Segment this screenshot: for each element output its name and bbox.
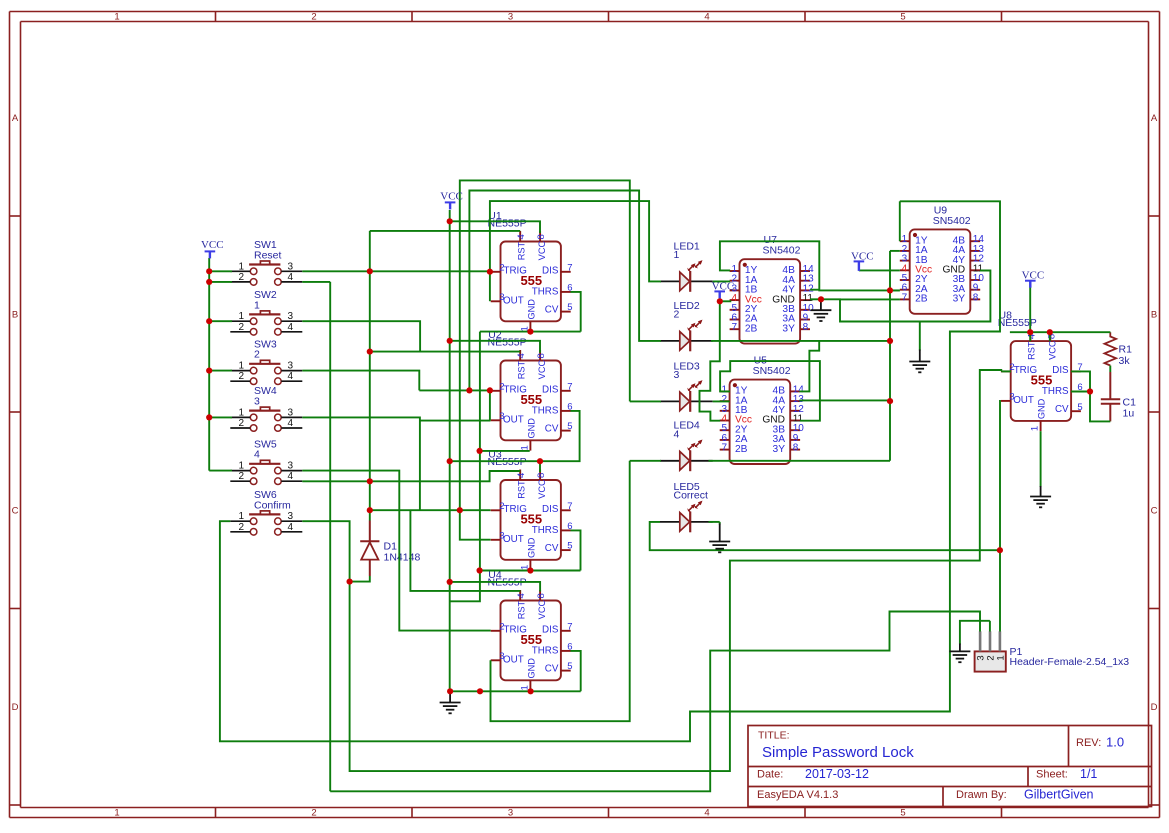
svg-text:Correct: Correct bbox=[674, 489, 709, 501]
svg-text:3: 3 bbox=[288, 511, 294, 522]
svg-text:VCC: VCC bbox=[537, 241, 547, 261]
svg-text:R1: R1 bbox=[1119, 344, 1133, 356]
svg-text:7: 7 bbox=[722, 443, 728, 454]
svg-text:1: 1 bbox=[520, 445, 531, 450]
svg-text:1: 1 bbox=[114, 808, 119, 819]
svg-text:2: 2 bbox=[499, 262, 504, 273]
svg-text:3Y: 3Y bbox=[782, 323, 795, 334]
svg-text:GND: GND bbox=[527, 418, 537, 439]
svg-text:5: 5 bbox=[567, 302, 572, 313]
svg-text:GND: GND bbox=[1037, 398, 1047, 419]
svg-text:2: 2 bbox=[238, 522, 244, 533]
svg-text:A: A bbox=[1151, 113, 1158, 124]
svg-text:1: 1 bbox=[114, 12, 119, 23]
svg-text:GilbertGiven: GilbertGiven bbox=[1024, 788, 1094, 802]
svg-text:5: 5 bbox=[567, 541, 572, 552]
svg-text:3k: 3k bbox=[1119, 355, 1131, 367]
svg-text:RST: RST bbox=[516, 361, 526, 380]
svg-text:7: 7 bbox=[567, 501, 572, 512]
svg-text:DIS: DIS bbox=[1052, 365, 1069, 376]
svg-text:D: D bbox=[12, 702, 19, 713]
svg-text:Sheet:: Sheet: bbox=[1036, 769, 1068, 781]
svg-text:GND: GND bbox=[527, 299, 537, 320]
svg-text:7: 7 bbox=[567, 381, 572, 392]
svg-text:THRS: THRS bbox=[1042, 386, 1069, 397]
svg-text:CV: CV bbox=[1055, 404, 1069, 415]
svg-text:4: 4 bbox=[516, 234, 527, 239]
svg-text:3: 3 bbox=[499, 651, 504, 662]
svg-text:2017-03-12: 2017-03-12 bbox=[805, 767, 869, 781]
svg-text:3: 3 bbox=[288, 361, 294, 372]
svg-text:2: 2 bbox=[499, 381, 504, 392]
svg-text:SN5402: SN5402 bbox=[753, 365, 791, 377]
svg-text:4: 4 bbox=[288, 272, 294, 283]
svg-text:3: 3 bbox=[288, 261, 294, 272]
svg-text:OUT: OUT bbox=[503, 654, 524, 665]
svg-text:8: 8 bbox=[793, 443, 799, 454]
svg-text:4: 4 bbox=[288, 371, 294, 382]
svg-text:Drawn By:: Drawn By: bbox=[956, 789, 1007, 801]
svg-text:8: 8 bbox=[536, 593, 547, 598]
svg-text:3: 3 bbox=[508, 808, 513, 819]
svg-text:3: 3 bbox=[674, 369, 680, 381]
svg-text:DIS: DIS bbox=[542, 504, 559, 515]
svg-text:SN5402: SN5402 bbox=[763, 245, 801, 257]
svg-text:2: 2 bbox=[674, 308, 680, 320]
svg-text:TRIG: TRIG bbox=[504, 625, 527, 636]
svg-text:2: 2 bbox=[254, 349, 260, 361]
svg-text:A: A bbox=[12, 113, 19, 124]
svg-text:OUT: OUT bbox=[1013, 395, 1034, 406]
svg-text:VCC: VCC bbox=[537, 600, 547, 620]
svg-text:4: 4 bbox=[516, 353, 527, 358]
svg-text:3Y: 3Y bbox=[953, 294, 966, 305]
svg-text:CV: CV bbox=[545, 304, 559, 315]
svg-text:SN5402: SN5402 bbox=[933, 215, 971, 227]
svg-text:OUT: OUT bbox=[503, 295, 524, 306]
svg-text:TRIG: TRIG bbox=[504, 266, 527, 277]
svg-text:3: 3 bbox=[254, 396, 260, 408]
svg-text:7: 7 bbox=[731, 322, 737, 333]
svg-text:1/1: 1/1 bbox=[1080, 767, 1097, 781]
svg-text:RST: RST bbox=[516, 480, 526, 499]
svg-text:OUT: OUT bbox=[503, 534, 524, 545]
svg-text:RST: RST bbox=[1027, 341, 1037, 360]
svg-text:VCC: VCC bbox=[537, 360, 547, 380]
svg-text:7: 7 bbox=[567, 621, 572, 632]
svg-text:5: 5 bbox=[900, 12, 905, 23]
svg-text:Simple Password Lock: Simple Password Lock bbox=[762, 744, 914, 761]
svg-text:2: 2 bbox=[499, 501, 504, 512]
svg-text:8: 8 bbox=[973, 292, 979, 303]
svg-text:4: 4 bbox=[288, 471, 294, 482]
svg-text:DIS: DIS bbox=[542, 385, 559, 396]
svg-text:3: 3 bbox=[499, 411, 504, 422]
svg-text:1: 1 bbox=[1030, 426, 1041, 431]
svg-text:4: 4 bbox=[288, 418, 294, 429]
svg-text:REV:: REV: bbox=[1076, 737, 1101, 749]
svg-text:B: B bbox=[12, 310, 18, 321]
svg-text:4: 4 bbox=[516, 473, 527, 478]
svg-text:1: 1 bbox=[238, 407, 244, 418]
svg-text:8: 8 bbox=[536, 473, 547, 478]
svg-text:DIS: DIS bbox=[542, 625, 559, 636]
svg-text:3: 3 bbox=[499, 292, 504, 303]
svg-text:4: 4 bbox=[674, 428, 680, 440]
svg-text:2: 2 bbox=[238, 272, 244, 283]
svg-text:CV: CV bbox=[545, 423, 559, 434]
svg-text:GND: GND bbox=[527, 537, 537, 558]
svg-text:3: 3 bbox=[1009, 392, 1014, 403]
svg-text:1: 1 bbox=[238, 461, 244, 472]
svg-text:4: 4 bbox=[516, 593, 527, 598]
svg-text:NE555P: NE555P bbox=[488, 218, 527, 230]
svg-text:4: 4 bbox=[254, 449, 260, 461]
svg-text:THRS: THRS bbox=[532, 525, 559, 536]
svg-text:1: 1 bbox=[674, 249, 680, 261]
svg-text:TRIG: TRIG bbox=[504, 504, 527, 515]
svg-text:2: 2 bbox=[238, 322, 244, 333]
svg-text:1: 1 bbox=[238, 261, 244, 272]
svg-text:5: 5 bbox=[1077, 402, 1082, 413]
svg-text:4: 4 bbox=[288, 322, 294, 333]
svg-text:2B: 2B bbox=[735, 444, 748, 455]
svg-text:THRS: THRS bbox=[532, 645, 559, 656]
svg-text:1: 1 bbox=[238, 511, 244, 522]
svg-text:3: 3 bbox=[508, 12, 513, 23]
svg-text:4: 4 bbox=[704, 808, 709, 819]
svg-text:2: 2 bbox=[238, 371, 244, 382]
svg-text:RST: RST bbox=[516, 242, 526, 261]
svg-text:D: D bbox=[1151, 702, 1158, 713]
svg-text:2B: 2B bbox=[915, 294, 928, 305]
svg-text:1N4148: 1N4148 bbox=[384, 552, 421, 564]
svg-text:Header-Female-2.54_1x3: Header-Female-2.54_1x3 bbox=[1010, 656, 1130, 668]
svg-text:VCC: VCC bbox=[537, 479, 547, 499]
svg-text:DIS: DIS bbox=[542, 266, 559, 277]
svg-text:8: 8 bbox=[803, 322, 809, 333]
svg-text:5: 5 bbox=[900, 808, 905, 819]
svg-text:7: 7 bbox=[567, 262, 572, 273]
svg-text:THRS: THRS bbox=[532, 405, 559, 416]
svg-text:Confirm: Confirm bbox=[254, 499, 291, 511]
svg-text:CV: CV bbox=[545, 663, 559, 674]
svg-text:3: 3 bbox=[499, 530, 504, 541]
svg-text:GND: GND bbox=[527, 658, 537, 679]
svg-text:3: 3 bbox=[288, 311, 294, 322]
svg-text:THRS: THRS bbox=[532, 286, 559, 297]
svg-text:VCC: VCC bbox=[440, 191, 463, 203]
svg-text:2: 2 bbox=[499, 621, 504, 632]
svg-text:7: 7 bbox=[902, 292, 908, 303]
svg-text:Date:: Date: bbox=[757, 769, 783, 781]
svg-text:2: 2 bbox=[238, 418, 244, 429]
svg-text:2: 2 bbox=[311, 12, 316, 23]
svg-text:EasyEDA V4.1.3: EasyEDA V4.1.3 bbox=[757, 789, 838, 801]
svg-text:3Y: 3Y bbox=[773, 444, 786, 455]
svg-text:5: 5 bbox=[567, 421, 572, 432]
svg-text:OUT: OUT bbox=[503, 414, 524, 425]
svg-text:NE555P: NE555P bbox=[488, 337, 527, 349]
svg-text:TITLE:: TITLE: bbox=[758, 730, 790, 742]
svg-text:4: 4 bbox=[288, 522, 294, 533]
svg-text:C: C bbox=[1151, 506, 1158, 517]
svg-text:2: 2 bbox=[311, 808, 316, 819]
svg-text:RST: RST bbox=[516, 601, 526, 620]
svg-text:2: 2 bbox=[238, 471, 244, 482]
svg-text:1: 1 bbox=[995, 655, 1006, 660]
svg-text:3: 3 bbox=[288, 461, 294, 472]
svg-text:1: 1 bbox=[238, 311, 244, 322]
svg-text:4: 4 bbox=[704, 12, 709, 23]
svg-text:3: 3 bbox=[288, 407, 294, 418]
svg-text:1: 1 bbox=[254, 299, 260, 311]
svg-text:TRIG: TRIG bbox=[1014, 365, 1037, 376]
svg-text:VCC: VCC bbox=[201, 239, 224, 251]
svg-text:8: 8 bbox=[536, 234, 547, 239]
svg-text:TRIG: TRIG bbox=[504, 385, 527, 396]
svg-text:1: 1 bbox=[238, 361, 244, 372]
svg-text:B: B bbox=[1151, 310, 1157, 321]
svg-text:1.0: 1.0 bbox=[1106, 735, 1124, 750]
svg-text:Reset: Reset bbox=[254, 249, 282, 261]
svg-text:CV: CV bbox=[545, 543, 559, 554]
svg-text:1u: 1u bbox=[1123, 408, 1135, 420]
svg-text:5: 5 bbox=[567, 661, 572, 672]
svg-text:VCC: VCC bbox=[1047, 340, 1057, 360]
svg-text:2B: 2B bbox=[745, 323, 758, 334]
svg-text:C: C bbox=[12, 506, 19, 517]
svg-text:8: 8 bbox=[536, 353, 547, 358]
